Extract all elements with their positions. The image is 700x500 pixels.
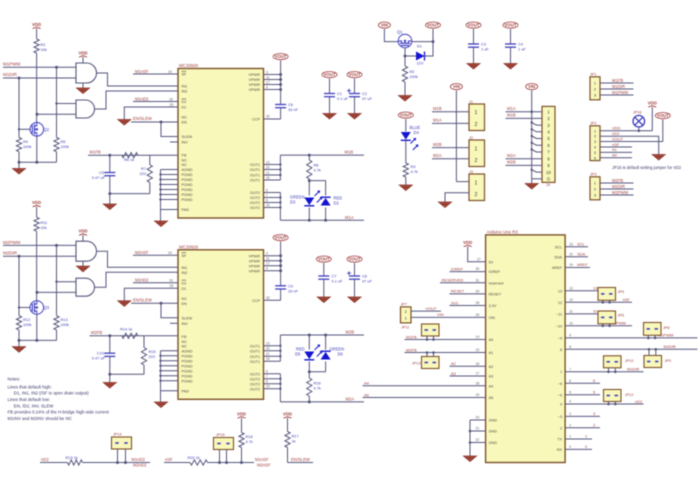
capacitor C5 0.47uF xyxy=(109,155,111,172)
ground for gate U6 xyxy=(82,261,84,266)
svg-text:VPWR: VPWR xyxy=(249,264,261,268)
svg-text:22: 22 xyxy=(569,253,573,257)
wire Q2 source down xyxy=(36,136,38,162)
svg-text:M1A: M1A xyxy=(507,106,516,111)
svg-text:IN2: IN2 xyxy=(182,90,188,94)
svg-text:A5: A5 xyxy=(364,392,370,397)
svg-text:NC: NC xyxy=(182,159,188,163)
svg-text:AGND: AGND xyxy=(182,349,193,353)
svg-text:OUT2: OUT2 xyxy=(250,382,260,386)
svg-text:OUT2: OUT2 xyxy=(250,206,260,210)
svg-text:0.1 uF: 0.1 uF xyxy=(337,96,349,101)
svg-text:29: 29 xyxy=(476,290,480,294)
ground for U8 PGND xyxy=(155,402,168,408)
svg-text:A0: A0 xyxy=(612,153,618,158)
svg-text:11: 11 xyxy=(569,310,573,314)
svg-text:100k: 100k xyxy=(410,74,418,79)
svg-text:47 uF: 47 uF xyxy=(362,96,373,101)
svg-text:M2nD2: M2nD2 xyxy=(135,278,149,283)
capacitor C2 47uF xyxy=(354,79,356,94)
svg-text:FB provides 0.24% of the H-bri: FB provides 0.24% of the H-bridge high-s… xyxy=(8,410,110,415)
svg-text:8: 8 xyxy=(569,345,571,349)
svg-text:OUT1: OUT1 xyxy=(250,179,260,183)
wire gate U6 output to IN1 xyxy=(97,251,179,267)
svg-text:0.1 uF: 0.1 uF xyxy=(332,279,344,284)
wire filter bottom channel 2 xyxy=(110,373,144,375)
svg-text:1: 1 xyxy=(594,129,596,133)
svg-text:VPWR: VPWR xyxy=(249,259,261,263)
svg-text:JP5: JP5 xyxy=(618,290,625,294)
stub VPWR pin 4 U8 xyxy=(264,270,281,272)
wire M2PWM to gate U7 input A and R13 xyxy=(56,245,58,315)
stub INV pin channel 2 xyxy=(170,322,178,324)
wire C9 to CCP pin 32 U8 xyxy=(280,289,282,300)
svg-text:18: 18 xyxy=(476,381,480,385)
svg-text:A2: A2 xyxy=(489,365,494,369)
junction M2PWM branch xyxy=(55,244,58,247)
svg-text:12: 12 xyxy=(569,298,573,302)
junction LED branch xyxy=(308,179,311,182)
wire OUT2 pins to M2A xyxy=(279,374,281,402)
svg-text:SLEW: SLEW xyxy=(182,135,193,139)
svg-text:6: 6 xyxy=(569,379,571,383)
svg-text:M1B: M1B xyxy=(345,150,354,155)
wire VDD to 5V pin 27 xyxy=(468,247,486,262)
svg-text:3.3V: 3.3V xyxy=(489,304,497,308)
svg-text:M1FB: M1FB xyxy=(406,334,417,339)
junction M1DIR branch xyxy=(18,77,21,80)
svg-text:7: 7 xyxy=(569,368,571,372)
svg-text:PGND: PGND xyxy=(182,359,193,363)
wire J4 pin 10 hook xyxy=(532,170,542,172)
svg-text:VOUT: VOUT xyxy=(318,257,330,262)
svg-text:32: 32 xyxy=(266,115,270,119)
svg-text:VOUT: VOUT xyxy=(349,257,361,262)
ground xyxy=(18,162,20,168)
svg-text:SCL: SCL xyxy=(577,242,586,247)
svg-text:VDD: VDD xyxy=(78,229,87,234)
svg-text:PGND: PGND xyxy=(182,364,193,368)
svg-text:RESERVED: RESERVED xyxy=(442,278,464,283)
resistor R4 100k xyxy=(16,138,21,152)
svg-text:1: 1 xyxy=(569,435,571,439)
svg-text:0.47 uF: 0.47 uF xyxy=(92,175,106,180)
svg-text:M2A: M2A xyxy=(346,397,355,402)
svg-text:25: 25 xyxy=(170,103,174,107)
svg-text:M2nD2: M2nD2 xyxy=(133,463,147,468)
svg-text:JP6: JP6 xyxy=(618,314,625,318)
resistor R1 10k xyxy=(34,39,39,53)
svg-text:OUT2: OUT2 xyxy=(250,196,260,200)
svg-text:RESET: RESET xyxy=(489,293,502,297)
svg-text:OUT2: OUT2 xyxy=(250,377,260,381)
svg-text:VIN: VIN xyxy=(381,23,388,28)
svg-text:D2: D2 xyxy=(182,281,187,285)
resistor R6 1k xyxy=(122,153,138,158)
wire net M2FB to FB pin xyxy=(90,335,179,337)
svg-text:R6 1k: R6 1k xyxy=(124,157,134,162)
svg-text:8: 8 xyxy=(266,198,268,202)
svg-text:JP2: JP2 xyxy=(590,122,597,126)
svg-text:13: 13 xyxy=(593,286,597,291)
resistor R11 10k xyxy=(34,217,39,231)
resistor R16 4.7k xyxy=(307,378,312,396)
svg-text:D3: D3 xyxy=(290,200,296,205)
svg-text:GND: GND xyxy=(489,430,498,434)
svg-text:6: 6 xyxy=(593,378,595,383)
svg-text:M2nSF: M2nSF xyxy=(257,463,271,468)
junction M2FB filter xyxy=(108,334,111,337)
wire JP1 pin 3 net M1PWM xyxy=(600,94,634,96)
svg-text:A3: A3 xyxy=(451,371,457,376)
svg-text:2: 2 xyxy=(475,122,478,128)
resistor R18 4.7k xyxy=(239,433,244,448)
svg-text:nSF: nSF xyxy=(612,142,620,147)
wire net M1FB to FB pin xyxy=(88,154,178,156)
wire Q1 drain to VOUT xyxy=(412,41,433,43)
wire Q3 source down xyxy=(36,314,38,340)
wire D1 pin 25 to ground xyxy=(124,107,178,120)
svg-text:IN1: IN1 xyxy=(182,85,188,89)
svg-text:10k: 10k xyxy=(41,225,47,230)
svg-text:11: 11 xyxy=(593,309,597,314)
svg-text:0.47 uF: 0.47 uF xyxy=(92,356,106,361)
ground for Arduino xyxy=(464,456,477,462)
LED D5 red xyxy=(304,352,314,360)
wire 3V3 pin 28 xyxy=(450,305,486,307)
wire JP3 pin 3 net M2PWM xyxy=(600,194,634,196)
resistor R15 220 xyxy=(143,336,145,348)
stub VPWR pin 3 U8 xyxy=(264,255,281,257)
wire A2 pin 16 xyxy=(450,365,486,367)
svg-text:R14 1k: R14 1k xyxy=(120,327,132,332)
wire D1 cathode to VOUT xyxy=(425,42,434,56)
wire gate U7 output to IN2 xyxy=(95,272,179,287)
ground for C3 xyxy=(467,64,480,70)
svg-text:1: 1 xyxy=(475,110,478,116)
svg-text:2: 2 xyxy=(593,423,595,428)
LED D6 green xyxy=(321,352,331,360)
svg-text:VDD: VDD xyxy=(283,412,292,417)
LED D2 red xyxy=(321,198,331,206)
ground for C1 xyxy=(323,114,336,120)
svg-text:VOUT: VOUT xyxy=(505,23,517,28)
svg-text:GND: GND xyxy=(489,419,498,423)
svg-text:M1B: M1B xyxy=(507,113,516,118)
svg-text:Lines that default high:: Lines that default high: xyxy=(8,384,52,389)
svg-text:3: 3 xyxy=(594,140,596,144)
svg-text:JP1: JP1 xyxy=(590,72,597,76)
ground for gate U1 xyxy=(82,83,84,88)
svg-text:6: 6 xyxy=(594,156,596,160)
wire JP2 pin 1 VDD xyxy=(600,130,652,132)
jumper JP8 xyxy=(644,323,662,336)
svg-text:EN: EN xyxy=(182,302,188,306)
svg-text:5V: 5V xyxy=(489,260,494,264)
junction LED D5 top xyxy=(308,334,311,337)
wire net M1DIR xyxy=(3,77,76,79)
wire M2B to J2 pin 1 xyxy=(432,147,469,149)
wire EN/SLEW to SLEW pin channel 2 xyxy=(161,303,178,318)
wire A4 pin 18 xyxy=(363,385,486,387)
svg-text:47 uF: 47 uF xyxy=(362,279,373,284)
svg-text:JP14: JP14 xyxy=(113,433,122,437)
wire net M2nD2 to D2 pin 16 xyxy=(133,282,178,284)
svg-text:MC33926: MC33926 xyxy=(179,63,199,68)
svg-text:Lines that default low:: Lines that default low: xyxy=(8,397,50,402)
svg-text:EN/SLEW: EN/SLEW xyxy=(133,297,152,302)
svg-text:NC: NC xyxy=(182,344,188,348)
svg-text:IOREF: IOREF xyxy=(489,270,501,274)
resistor R2 100k xyxy=(404,56,406,66)
wire JP2 pin 2 to ground xyxy=(600,136,659,154)
ground for R3 xyxy=(399,185,412,191)
svg-text:3: 3 xyxy=(569,412,571,416)
svg-text:29: 29 xyxy=(266,385,270,389)
svg-text:INV: INV xyxy=(182,141,189,145)
wire net M2PWM xyxy=(3,244,76,246)
svg-text:24: 24 xyxy=(569,263,573,267)
svg-text:21: 21 xyxy=(476,427,480,431)
svg-text:6: 6 xyxy=(266,370,268,374)
LED emission arrows channel 2 xyxy=(315,345,320,350)
wire net M1nSF to SF pin 24 xyxy=(133,73,178,75)
svg-text:SDA: SDA xyxy=(577,252,586,257)
svg-text:1: 1 xyxy=(585,434,587,439)
svg-text:CCP: CCP xyxy=(252,118,260,122)
svg-text:JP15: JP15 xyxy=(216,433,225,437)
ground for M1FB filter xyxy=(103,204,116,210)
svg-text:M2B: M2B xyxy=(433,142,442,147)
svg-text:OUT2: OUT2 xyxy=(250,387,260,391)
svg-text:JP7: JP7 xyxy=(401,303,408,307)
svg-text:FB: FB xyxy=(182,154,187,158)
svg-text:20: 20 xyxy=(266,347,270,351)
svg-text:M2A: M2A xyxy=(507,153,516,158)
wire JP3 pin 1 net M2FB xyxy=(600,182,634,184)
wire M1DIR to Q2 gate and R4 xyxy=(18,78,20,138)
svg-text:4.7k: 4.7k xyxy=(246,439,253,444)
svg-text:23: 23 xyxy=(569,243,573,247)
wire M1B to J1 pin 1 xyxy=(432,111,469,113)
svg-text:EN, /D2, INV, SLEW: EN, /D2, INV, SLEW xyxy=(14,403,54,408)
svg-text:SF: SF xyxy=(182,73,188,77)
svg-text:3V3: 3V3 xyxy=(451,300,459,305)
resistor R3 4.7k xyxy=(405,141,407,164)
wire JP2 pin 6 net A0 xyxy=(600,157,632,159)
svg-text:4.7k: 4.7k xyxy=(411,169,418,174)
svg-text:JP13: JP13 xyxy=(412,362,421,366)
svg-text:~11: ~11 xyxy=(556,313,562,317)
wire net EN/SLEW to EN pin channel 2 xyxy=(131,302,178,304)
svg-text:33 nF: 33 nF xyxy=(288,288,299,293)
svg-text:4.7k: 4.7k xyxy=(314,168,321,173)
wire net M2DIR xyxy=(3,255,76,257)
svg-text:D5: D5 xyxy=(295,352,301,357)
svg-text:RESET: RESET xyxy=(451,289,465,294)
wire pin 8 net M2DIR xyxy=(565,348,697,350)
svg-text:20: 20 xyxy=(266,165,270,169)
svg-text:A0: A0 xyxy=(489,338,494,342)
LED D3 green xyxy=(304,198,314,206)
svg-text:GND: GND xyxy=(489,441,498,445)
ground for C8 xyxy=(348,297,361,303)
svg-text:4: 4 xyxy=(560,403,562,407)
svg-text:6: 6 xyxy=(266,188,268,192)
svg-text:A5: A5 xyxy=(489,396,494,400)
svg-text:3: 3 xyxy=(266,70,268,74)
svg-text:PAD: PAD xyxy=(182,389,190,393)
wire A5 pin 19 xyxy=(363,397,486,399)
svg-text:M1nSF: M1nSF xyxy=(255,457,269,462)
stub VPWR pin 4 xyxy=(264,89,281,91)
wire M2FB to A1 pin 15 xyxy=(405,352,486,354)
svg-text:VIN: VIN xyxy=(453,84,460,89)
svg-text:FB: FB xyxy=(182,335,187,339)
svg-text:1 uF: 1 uF xyxy=(481,47,489,52)
wire pin 12 net nSF xyxy=(565,301,632,303)
svg-text:1 uF: 1 uF xyxy=(518,47,526,52)
wire pin 4 net nD2 xyxy=(565,403,643,405)
svg-text:25: 25 xyxy=(170,284,174,288)
svg-text:3: 3 xyxy=(266,252,268,256)
svg-text:JP10: JP10 xyxy=(625,359,634,363)
capacitor C4 1uF xyxy=(510,29,512,44)
svg-text:100k: 100k xyxy=(61,322,69,327)
svg-text:30: 30 xyxy=(476,267,480,271)
stub INV pin xyxy=(170,141,178,143)
svg-text:5: 5 xyxy=(593,389,595,394)
svg-text:VDD: VDD xyxy=(648,101,657,106)
svg-text:21: 21 xyxy=(266,171,270,175)
svg-text:11: 11 xyxy=(266,75,270,79)
svg-text:PGND: PGND xyxy=(182,379,193,383)
svg-text:TX: TX xyxy=(557,438,562,442)
svg-text:PGND: PGND xyxy=(182,193,193,197)
svg-text:2: 2 xyxy=(560,426,562,430)
resistor R12 100k xyxy=(16,316,21,330)
svg-text:10k: 10k xyxy=(41,47,47,52)
svg-text:M2DIR: M2DIR xyxy=(664,344,677,349)
LED D4 blue xyxy=(405,119,407,132)
svg-text:M1DIR: M1DIR xyxy=(3,72,18,77)
ground for U3 PGND xyxy=(155,221,168,227)
wire M2B to J4 pin 9 xyxy=(506,164,543,166)
svg-text:J1: J1 xyxy=(469,100,473,104)
capacitor C8 47uF xyxy=(354,263,356,276)
wire VIN bus at J4 xyxy=(531,91,533,184)
jumper JP6 xyxy=(598,311,616,324)
svg-text:4: 4 xyxy=(266,267,268,271)
wire M2A to J4 pin 8 xyxy=(506,158,543,160)
svg-text:JP16 is default setting jumper: JP16 is default setting jumper for nD2 xyxy=(612,165,682,170)
svg-text:MC33926: MC33926 xyxy=(179,244,199,249)
svg-text:Notes:: Notes: xyxy=(8,377,21,382)
svg-text:M2PWM: M2PWM xyxy=(3,240,21,245)
svg-text:J2: J2 xyxy=(469,136,473,140)
wire IOREF pin 30 xyxy=(450,271,486,273)
svg-text:PGND: PGND xyxy=(182,354,193,358)
svg-text:NC: NC xyxy=(182,297,188,301)
svg-text:M1DIR: M1DIR xyxy=(612,84,625,89)
wire pin 9 net M1PWM xyxy=(565,337,697,339)
wire JP2 pin 3 VOUT xyxy=(600,141,663,143)
svg-text:31: 31 xyxy=(476,278,480,282)
resistor R5 100k xyxy=(54,138,59,152)
svg-text:220: 220 xyxy=(149,354,156,359)
resistor R7 220 xyxy=(149,155,151,165)
svg-text:D1: D1 xyxy=(182,287,187,291)
svg-text:OUT1: OUT1 xyxy=(250,355,260,359)
svg-text:8: 8 xyxy=(266,380,268,384)
svg-text:21: 21 xyxy=(266,352,270,356)
svg-text:VPWR: VPWR xyxy=(249,88,261,92)
capacitor C6 33nF xyxy=(275,104,286,106)
svg-text:EN/SLEW: EN/SLEW xyxy=(133,116,152,121)
svg-text:M1nD2: M1nD2 xyxy=(135,96,149,101)
svg-text:NC: NC xyxy=(182,340,188,344)
svg-text:16: 16 xyxy=(169,279,173,283)
wire D1 pin 25 to ground channel 2 xyxy=(124,288,178,301)
wire VOUT to VPWR pins U8 xyxy=(280,242,282,286)
svg-text:VOUT: VOUT xyxy=(657,113,669,118)
wire pin 5 xyxy=(565,394,600,396)
svg-text:D6: D6 xyxy=(338,352,344,357)
svg-text:M2FB: M2FB xyxy=(91,330,102,335)
svg-text:VDD: VDD xyxy=(78,51,87,56)
svg-text:nD2: nD2 xyxy=(612,131,620,136)
svg-text:VIN: VIN xyxy=(528,84,535,89)
svg-text:VPWR: VPWR xyxy=(249,254,261,258)
svg-text:OUT2: OUT2 xyxy=(250,191,260,195)
svg-text:2: 2 xyxy=(594,135,596,139)
stub VPWR pin 11 xyxy=(264,79,281,81)
svg-text:Q2: Q2 xyxy=(44,127,50,132)
wire JP7 pin 2 net VOUT xyxy=(411,310,441,312)
wire net M1PWM xyxy=(3,66,76,68)
svg-text:M1A: M1A xyxy=(345,215,354,220)
wire pin 6 xyxy=(565,382,600,384)
wire M1A to J4 pin 1 xyxy=(506,111,543,113)
svg-text:VOUT: VOUT xyxy=(349,72,361,77)
wire JP1 pin 2 net M1DIR xyxy=(600,88,634,90)
ground for C7 xyxy=(317,297,330,303)
resistor R13 100k xyxy=(54,316,59,330)
svg-text:0: 0 xyxy=(569,445,571,449)
wire AGND/PGND comb to ground xyxy=(160,170,162,210)
svg-text:7: 7 xyxy=(266,375,268,379)
svg-text:JP12: JP12 xyxy=(625,393,634,397)
svg-text:24: 24 xyxy=(168,70,172,74)
svg-text:VOUT: VOUT xyxy=(400,113,412,118)
AND gate U1 xyxy=(76,63,97,83)
AND gate U6 xyxy=(76,241,97,261)
svg-text:100k: 100k xyxy=(61,144,69,149)
svg-text:VOUT: VOUT xyxy=(324,72,336,77)
connector J4 xyxy=(542,106,555,182)
svg-text:INV: INV xyxy=(182,322,189,326)
svg-text:A1: A1 xyxy=(489,351,494,355)
junction R8 top xyxy=(308,154,311,157)
resistor R20 1k xyxy=(190,460,208,465)
svg-text:SCL: SCL xyxy=(555,245,562,249)
svg-text:4: 4 xyxy=(594,146,596,150)
wire R17 to EN/SLEW xyxy=(288,462,314,464)
svg-text:29: 29 xyxy=(266,176,270,180)
wire gate U1 output to IN1 xyxy=(97,73,179,86)
transistor Q1 xyxy=(398,34,412,48)
svg-text:PGND: PGND xyxy=(182,369,193,373)
